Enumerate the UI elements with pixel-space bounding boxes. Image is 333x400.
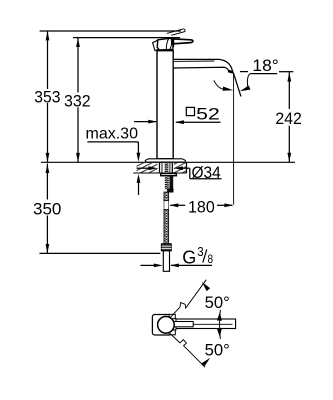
hose end fitting [161, 244, 171, 251]
threaded stud below nut [165, 176, 169, 190]
plan: spout [174, 319, 236, 329]
plan: spout centerline [193, 323, 232, 325]
dimension 242 [288, 72, 290, 109]
dimension 350 [46, 164, 48, 200]
deck cross-section hatch left [137, 163, 158, 173]
plan: lever handle [174, 322, 193, 327]
svg-text:3: 3 [197, 244, 203, 259]
hose break gap edges [163, 201, 165, 210]
faucet body column [157, 51, 173, 159]
plan: cartridge circle [158, 317, 175, 334]
svg-text:52: 52 [196, 104, 220, 123]
svg-text:8: 8 [208, 254, 214, 266]
deck section right edge [186, 162, 188, 173]
mounting flange [145, 159, 185, 162]
svg-text:350: 350 [33, 200, 61, 219]
svg-text:50°: 50° [205, 293, 230, 312]
deck underside line [133, 172, 186, 174]
flexible braided hose lower segment [164, 209, 169, 243]
spout top face inner line [174, 60, 215, 62]
upper 50deg ray with break jog [170, 280, 206, 318]
svg-text:180: 180 [188, 198, 215, 217]
extension at outlet level (242) [240, 71, 248, 73]
plan: body base plate [152, 315, 171, 336]
extension line hose end (350) [40, 252, 161, 254]
supply pipe stub below nut [169, 176, 173, 189]
svg-text:242: 242 [275, 109, 301, 128]
18deg left arc arrow [214, 80, 225, 89]
svg-text:Ø34: Ø34 [192, 163, 221, 182]
dimension 180 [169, 203, 178, 207]
plan: top tab [169, 314, 175, 319]
svg-text:18°: 18° [252, 56, 278, 75]
plan: lever connector [170, 319, 176, 330]
G3/8 connection tube [163, 251, 169, 271]
dimension 353 [47, 31, 49, 89]
lever raised phantom tip [167, 29, 184, 34]
threaded stud in deck [165, 162, 169, 173]
svg-text:max.30: max.30 [86, 125, 139, 142]
svg-text:50°: 50° [205, 341, 230, 360]
deck cross-section hatch right [174, 163, 187, 173]
label square52 [134, 121, 156, 123]
vertical extension from spout tip [233, 74, 235, 205]
stream direction line [233, 73, 241, 97]
dimension arrows diam34 hole [137, 167, 150, 169]
lever knob [157, 38, 173, 50]
svg-text:332: 332 [64, 92, 91, 111]
countertop deck line [41, 161, 295, 163]
plan: swing arc double arrow [219, 310, 222, 339]
shank through deck [159, 162, 161, 173]
svg-text:353: 353 [34, 88, 60, 107]
lever knob left facet [153, 40, 160, 50]
plan: bottom tab [169, 330, 175, 335]
spout outlet tip [228, 71, 233, 73]
extension line top of body (332) [73, 37, 180, 39]
dimension G3/8 [141, 264, 155, 266]
locking nut under deck [161, 173, 177, 175]
hose coupling [168, 189, 173, 192]
flexible braided hose upper segment [164, 192, 169, 201]
lever rod [173, 39, 193, 44]
extension line top of lever (353) [40, 30, 181, 32]
svg-text:G: G [182, 246, 196, 267]
dimension 332 [77, 38, 79, 93]
spout [173, 59, 233, 72]
lower 50deg ray with break jog [170, 334, 205, 368]
